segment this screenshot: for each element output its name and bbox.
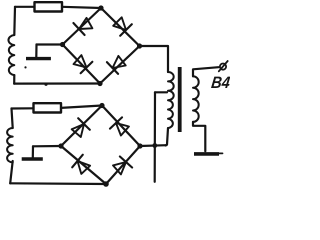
svg-text:В4: В4 xyxy=(210,73,230,92)
inductor L2 (left coil, row 2) xyxy=(7,128,13,162)
bridge 1 arm: top to right xyxy=(101,8,140,46)
diode D3 (bridge 1 lower-left) xyxy=(74,55,93,73)
wire: left vertical lower (row 2) xyxy=(10,161,13,183)
diode D6 (bridge 2 upper-right) xyxy=(110,117,129,135)
node dot bridge1 bottom xyxy=(97,81,102,86)
bridge 1 arm: right to bottom xyxy=(100,46,140,84)
wire: left vertical upper (row 2) xyxy=(12,109,13,129)
junction blob on row-1 bottom rail xyxy=(44,83,47,86)
output terminal circle xyxy=(220,64,226,70)
wire: ground G1 to bridge 1 left node xyxy=(37,43,63,45)
diode D7 (bridge 2 lower-left) xyxy=(72,155,90,174)
wire: top rail right segment to bridge 1 top xyxy=(62,7,101,8)
wire: top rail left segment (row 1) xyxy=(15,6,34,8)
label B4 xyxy=(210,73,231,92)
wire: primary center tap horizontal xyxy=(155,91,167,93)
wire: secondary bottom lead xyxy=(193,122,205,151)
ground G2 bar xyxy=(22,157,43,160)
ground G1 stem xyxy=(35,45,37,58)
node dot bridge2 left xyxy=(58,143,63,148)
wire: bridge2 right node to primary bottom xyxy=(140,144,167,147)
wire: top rail right segment to bridge 2 top xyxy=(61,106,102,108)
wire: center tap vertical line xyxy=(154,92,157,182)
wire: primary bottom lead xyxy=(166,128,169,145)
bridge 2 arm: top to right xyxy=(102,106,140,147)
wire: bottom rail (row 1) xyxy=(14,82,100,84)
resistor R2 xyxy=(34,103,62,112)
diode D8 (bridge 2 lower-right) xyxy=(113,157,132,175)
transformer core xyxy=(178,67,182,132)
diode D5 (bridge 2 upper-left) xyxy=(72,118,90,137)
ground G3 bar tick xyxy=(219,152,223,154)
wire: ground G2 to bridge 2 left node xyxy=(33,145,61,148)
wire: bottom rail (row 2) xyxy=(10,182,106,185)
transformer T1 primary winding xyxy=(168,72,174,128)
ground G3 bar xyxy=(194,152,219,156)
bridge 2 arm: left to bottom xyxy=(61,146,106,184)
diode D2 (bridge 1 upper-right) xyxy=(113,17,132,36)
node dot bridge2 right xyxy=(137,143,142,148)
bridge 1 arm: left to bottom xyxy=(63,45,101,84)
diode D1 (bridge 1 upper-left) xyxy=(73,18,92,35)
diode D4 (bridge 1 lower-right) xyxy=(107,56,126,74)
bridge 1 arm: top to left xyxy=(63,8,102,45)
node dot bridge1 left xyxy=(60,42,65,47)
wire: bridge1 right node to transformer primary top xyxy=(140,46,169,72)
node dot bridge1 top xyxy=(98,5,103,10)
bridge 2 arm: bottom to right xyxy=(106,146,140,184)
ground G1 bar xyxy=(26,57,51,60)
bridge 2 arm: left to top xyxy=(61,106,102,147)
node dot bridge2 top xyxy=(99,103,104,108)
inductor L1 (left coil, row 1) xyxy=(8,35,14,75)
wire: secondary top lead to output terminal xyxy=(193,67,219,76)
junction dot tap line crossing xyxy=(152,143,157,148)
node dot bridge2 bottom xyxy=(103,181,109,187)
node dot bridge1 right xyxy=(137,43,142,48)
resistor R1 xyxy=(35,2,63,11)
ground G2 stem xyxy=(32,146,34,157)
wire: left vertical upper (row 1) xyxy=(13,7,16,35)
wire: top rail left segment (row 2) xyxy=(12,107,34,109)
transformer T1 secondary winding xyxy=(193,76,199,122)
ink speck near coil 1 xyxy=(24,66,26,68)
wire: left vertical lower (row 1) xyxy=(13,75,15,84)
output terminal slash xyxy=(219,61,228,71)
